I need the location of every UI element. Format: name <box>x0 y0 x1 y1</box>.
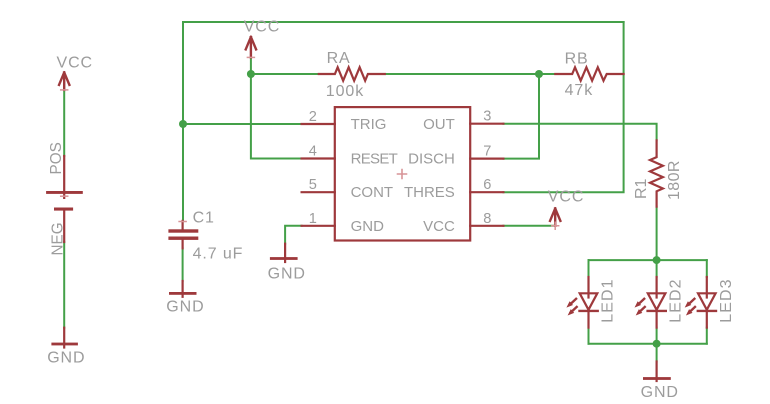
svg-text:VCC: VCC <box>548 188 584 205</box>
node junction LED bottom at (656.6,343.7) <box>653 340 661 348</box>
wire LED rail bottom to ground <box>656 344 658 362</box>
svg-text:4: 4 <box>309 144 317 160</box>
svg-text:GND: GND <box>166 299 204 316</box>
IC origin cross <box>398 170 407 179</box>
pin 6 THRES stub <box>470 191 503 193</box>
pin 8 VCC stub <box>470 225 503 227</box>
LED2 emission arrows <box>635 299 645 316</box>
wire GND pin 1 to ground <box>285 226 302 244</box>
node junction LED top at (656.6,260.1) <box>653 256 661 264</box>
wire RA right pin to RB junction <box>385 73 539 75</box>
wire R1 bottom to LED rail <box>656 207 658 260</box>
wire THRES vertical from top rail to pin 6 <box>503 22 623 192</box>
svg-text:THRES: THRES <box>404 184 455 201</box>
pin 7 DISCH stub <box>470 158 503 160</box>
svg-text:4.7 uF: 4.7 uF <box>193 245 244 262</box>
svg-text:LED2: LED2 <box>668 278 685 322</box>
battery B1 POS plate <box>63 156 65 198</box>
svg-text:47k: 47k <box>565 82 594 99</box>
svg-text:DISCH: DISCH <box>408 151 455 168</box>
wire LED2 column segments <box>656 260 658 277</box>
svg-text:CONT: CONT <box>351 184 394 201</box>
wire battery NEG pin to ground <box>63 242 65 328</box>
resistor RB <box>555 67 623 80</box>
wire VCC pin 8 to arrow <box>503 225 555 227</box>
svg-text:100k: 100k <box>326 83 364 100</box>
svg-text:NEG: NEG <box>50 222 67 255</box>
node junction DISCH at (539,74) <box>535 70 543 78</box>
svg-text:7: 7 <box>483 144 491 160</box>
wire LED1 column segments <box>588 260 590 277</box>
svg-text:R1: R1 <box>633 178 650 199</box>
LED3 diode <box>706 277 708 298</box>
svg-text:3: 3 <box>483 109 491 125</box>
op-amp / timer IC U1 body <box>335 107 470 240</box>
ground symbol (pin 1) <box>284 244 286 262</box>
VCC supply arrow (top) <box>246 37 256 58</box>
pin 4 RESET stub <box>302 157 335 159</box>
battery B1 NEG plate <box>54 208 73 211</box>
svg-text:LED1: LED1 <box>599 278 616 322</box>
pin 2 TRIG stub <box>302 123 335 125</box>
wire VCC junction to RA left pin <box>251 73 319 75</box>
svg-text:GND: GND <box>47 350 85 367</box>
LED3 emission arrows <box>685 299 695 316</box>
VCC supply arrow (pin 8) <box>550 208 560 225</box>
wire TRIG horizontal to pin 2 <box>183 123 302 125</box>
wire C1 bottom pin to ground <box>182 248 184 281</box>
pin 1 GND stub <box>302 225 335 227</box>
svg-text:5: 5 <box>309 177 317 193</box>
wire OUT pin 3 to R1 top <box>503 124 656 141</box>
ground symbol (battery) <box>63 328 65 348</box>
wire DISCH junction to RB left pin <box>539 73 555 75</box>
LED1 diode <box>587 277 589 298</box>
wire VCC arrow stem to junction <box>250 59 252 75</box>
resistor RA <box>319 67 385 80</box>
LED1 emission arrows <box>566 299 576 316</box>
svg-text:GND: GND <box>268 266 306 283</box>
capacitor C1 origin cross <box>179 221 186 223</box>
pin 3 OUT stub <box>470 123 503 125</box>
pin 5 CONT stub <box>302 191 335 193</box>
svg-text:TRIG: TRIG <box>351 116 387 133</box>
svg-text:RB: RB <box>565 51 589 68</box>
resistor R1 <box>650 140 663 206</box>
svg-text:VCC: VCC <box>423 218 455 235</box>
wire VCC junction down to RESET pin 4 <box>251 74 302 159</box>
ground symbol (LED rail) <box>655 362 657 382</box>
wire net TRIG/THRES top rail <box>183 21 624 23</box>
svg-text:RA: RA <box>327 50 351 67</box>
svg-text:POS: POS <box>48 142 65 174</box>
svg-text:180R: 180R <box>666 160 683 200</box>
svg-text:RESET: RESET <box>351 151 398 168</box>
svg-text:6: 6 <box>483 177 491 193</box>
svg-text:1: 1 <box>309 211 317 227</box>
svg-text:LED3: LED3 <box>718 278 735 322</box>
wire left vertical from top rail to C1 <box>182 22 184 221</box>
capacitor C1 <box>182 221 184 231</box>
node junction TRIG at (183,124) <box>179 120 187 128</box>
wire DISCH junction down to pin 7 <box>503 74 539 159</box>
VCC supply arrow (battery) <box>59 72 69 90</box>
svg-text:GND: GND <box>351 218 385 235</box>
wire LED3 column segments <box>706 260 708 277</box>
svg-text:OUT: OUT <box>423 116 455 133</box>
svg-text:GND: GND <box>641 384 679 401</box>
ground symbol (C1) <box>182 281 184 297</box>
svg-text:8: 8 <box>483 211 491 227</box>
svg-text:2: 2 <box>309 109 317 125</box>
wire LED bottom rail <box>589 343 707 345</box>
svg-text:C1: C1 <box>193 210 215 227</box>
svg-text:VCC: VCC <box>57 54 93 71</box>
LED2 diode <box>655 277 657 298</box>
wire LED top rail <box>589 259 707 261</box>
svg-text:VCC: VCC <box>244 18 280 35</box>
battery POS origin cross <box>61 195 68 197</box>
node junction VCC at (250.9,74) <box>247 70 255 78</box>
wire battery VCC arrow to POS pin <box>63 90 65 156</box>
